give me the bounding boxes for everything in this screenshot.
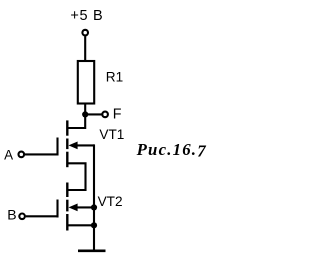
svg-text:+5 В: +5 В: [70, 8, 103, 24]
terminal F circle: [102, 112, 108, 118]
wire substrate/ground rail: [93, 144, 95, 250]
svg-text:Рис.16.7: Рис.16.7: [136, 140, 207, 160]
terminal A circle: [19, 152, 25, 158]
transistor VT1 channel (dashed): [66, 120, 68, 167]
svg-text:B: B: [7, 206, 16, 222]
svg-text:A: A: [4, 147, 13, 162]
wire source VT2 to rail: [67, 224, 94, 226]
wire gate lead B to VT2: [26, 215, 58, 217]
wire gate lead A to VT1: [25, 153, 58, 155]
transistor VT2 channel (dashed): [66, 183, 68, 231]
wire resistor to node: [84, 104, 86, 117]
svg-text:VT2: VT2: [98, 194, 123, 209]
power terminal +5V circle: [82, 30, 88, 36]
transistor VT2 gate bar: [56, 200, 58, 218]
node dot VT2 substrate on rail: [91, 204, 97, 210]
transistor VT1 substrate arrow: [69, 142, 78, 150]
svg-text:VT1: VT1: [99, 127, 124, 142]
svg-text:R1: R1: [106, 70, 123, 85]
wire node to F terminal: [85, 113, 101, 115]
wire VT1 substrate to rail: [77, 144, 95, 146]
resistor R1: [78, 61, 94, 104]
wire supply to resistor: [84, 36, 86, 61]
transistor VT1 gate bar: [56, 138, 58, 156]
transistor VT2 substrate arrow: [69, 204, 78, 212]
node dot VT2 source on rail: [91, 222, 97, 228]
terminal B circle: [19, 214, 25, 220]
svg-text:F: F: [113, 107, 122, 123]
ground: [78, 250, 106, 253]
wire source VT1 to drain VT2: [67, 163, 85, 190]
wire VT2 substrate to rail: [77, 206, 95, 208]
node junction dot (drain VT1 / R1 / F): [82, 111, 88, 117]
wire drain VT1: [67, 114, 85, 128]
